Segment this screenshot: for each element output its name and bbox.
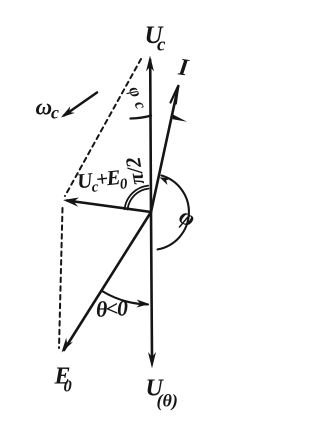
- arrowhead U_c: [146, 56, 154, 72]
- angle arc pi/2 inner: [128, 189, 149, 210]
- open arrowhead of vector I: [171, 86, 179, 104]
- barb on vector I: [172, 114, 187, 122]
- svg-text:ω: ω: [36, 95, 53, 120]
- arrowhead of angle arc phi: [160, 177, 171, 185]
- omega_c rotation arrow shaft: [64, 93, 97, 116]
- angle arc phi_c tick: [131, 116, 152, 119]
- vector U_c shaft: [149, 60, 152, 212]
- vector I shaft: [151, 86, 178, 212]
- vector U_c+E_0 shaft: [67, 201, 151, 213]
- angle arc pi/2 outer: [125, 186, 149, 210]
- vector E_0 shaft: [64, 212, 151, 350]
- svg-text:(θ): (θ): [157, 391, 178, 412]
- vector U_theta shaft: [151, 212, 152, 358]
- arrowhead of angle arc theta: [136, 300, 149, 308]
- arrowhead U_theta: [148, 352, 156, 369]
- dashed construction line parallel to U_c: [59, 208, 63, 348]
- dashed construction line parallel to E_0: [65, 59, 141, 196]
- arrowhead E_0: [62, 338, 73, 353]
- angle arc theta: [102, 291, 148, 305]
- svg-text:c: c: [157, 35, 166, 56]
- arrowhead U_c+E_0: [63, 198, 79, 207]
- svg-text:0: 0: [64, 377, 72, 396]
- arrowhead omega_c: [61, 106, 75, 117]
- angle arc phi: [158, 176, 189, 250]
- svg-text:c: c: [51, 103, 59, 123]
- svg-text:θ<0: θ<0: [95, 295, 128, 322]
